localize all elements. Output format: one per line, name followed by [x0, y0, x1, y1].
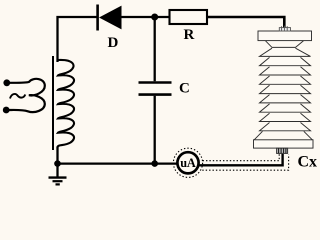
- svg-text:C: C: [179, 81, 190, 97]
- svg-text:D: D: [108, 35, 119, 51]
- svg-text:R: R: [184, 27, 195, 43]
- svg-text:Cx: Cx: [298, 154, 318, 171]
- svg-text:uA: uA: [180, 156, 196, 170]
